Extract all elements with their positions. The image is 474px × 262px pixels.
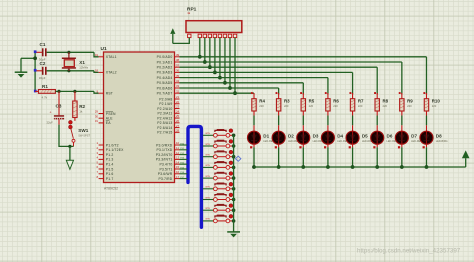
pin P2.4/A12 (25) right: [175, 117, 180, 119]
pin P1.5 (6) left: [99, 168, 104, 170]
svg-text:12MHz: 12MHz: [79, 66, 88, 70]
svg-text:AT89C52: AT89C52: [104, 187, 118, 191]
RP1 pin 1: [188, 34, 191, 37]
svg-text:EA: EA: [106, 121, 111, 125]
svg-text:220: 220: [358, 104, 363, 108]
pin XTAL2 (18) left: [99, 71, 104, 73]
wire D4 cathode: [327, 147, 329, 167]
svg-text:P0.0/AD0: P0.0/AD0: [157, 55, 173, 59]
pin P2.7/A15 (28) right: [175, 131, 180, 133]
resistor R10: [423, 92, 425, 94]
RP1 pin 4: [208, 34, 211, 37]
resistor R6: [325, 92, 327, 94]
svg-text:10: 10: [176, 141, 180, 145]
wire drop to R9: [401, 62, 403, 94]
svg-text:R10: R10: [432, 99, 441, 104]
svg-text:BTN: BTN: [206, 155, 211, 157]
svg-text:P2.5/A13: P2.5/A13: [157, 121, 172, 125]
svg-text:22uF: 22uF: [47, 120, 54, 124]
wire R5 to D3: [302, 116, 304, 126]
wire P0.1 row: [180, 61, 402, 63]
svg-text:BTN: BTN: [206, 187, 211, 189]
wire ground drop: [20, 58, 22, 72]
svg-text:220: 220: [309, 104, 314, 108]
wire P3.4 to bus: [180, 163, 188, 165]
junction gnd rail: [33, 56, 37, 60]
svg-text:22: 22: [176, 100, 180, 104]
wire R10 to D8: [425, 116, 427, 126]
svg-text:P0.2/AD2: P0.2/AD2: [157, 66, 173, 70]
wire R7 to D5: [352, 116, 354, 126]
push button B5: [203, 177, 214, 179]
svg-text:D4: D4: [337, 134, 343, 139]
wire RP1 pin 2 to P0.0: [199, 38, 201, 57]
svg-text:15: 15: [176, 165, 180, 169]
svg-text:220: 220: [407, 104, 412, 108]
svg-text:BTN: BTN: [206, 133, 211, 135]
svg-text:X1: X1: [79, 60, 85, 65]
svg-text:D7: D7: [411, 134, 417, 139]
wire drop to R3: [278, 88, 280, 94]
junction rail D6: [375, 165, 379, 169]
svg-text:36: 36: [176, 69, 180, 73]
pin P1.2 (3) left: [99, 154, 104, 156]
svg-text:P1.1/T2EX: P1.1/T2EX: [106, 148, 124, 152]
wire P3.3 to bus: [180, 158, 188, 160]
svg-text:XTAL2: XTAL2: [106, 71, 117, 75]
svg-text:21: 21: [176, 95, 180, 99]
wire P3.6 to bus: [180, 173, 188, 175]
wire P3.1 to bus: [180, 149, 188, 151]
wire RP1 common: [173, 38, 190, 44]
svg-text:R4: R4: [259, 99, 265, 104]
svg-text:D2: D2: [288, 134, 294, 139]
svg-text:37: 37: [176, 63, 180, 67]
svg-text:P1.0/T2: P1.0/T2: [106, 143, 119, 147]
wire P0.5 row: [180, 82, 304, 84]
junction rail D1: [252, 165, 256, 169]
wire R8 to D6: [376, 116, 378, 126]
svg-text:PSEN: PSEN: [106, 112, 116, 116]
node C1 junction: [34, 50, 37, 53]
svg-text:D8: D8: [436, 134, 442, 139]
svg-text:12: 12: [176, 151, 180, 155]
svg-text:C2: C2: [40, 61, 46, 66]
pin P0.1/AD1 (38) right: [175, 61, 180, 63]
svg-text:P3.0/RXD: P3.0/RXD: [156, 143, 173, 147]
wire drop to R8: [376, 67, 378, 94]
svg-text:P0.1/AD1: P0.1/AD1: [157, 60, 173, 64]
wire D2 cathode: [278, 147, 280, 167]
svg-text:BTN: BTN: [206, 208, 211, 210]
svg-text:D6: D6: [387, 134, 393, 139]
wire C3/SW1 gnd: [59, 125, 74, 147]
pin P1.7 (8) left: [99, 178, 104, 180]
svg-text:P0.3/AD3: P0.3/AD3: [157, 71, 173, 75]
svg-text:P2.6/A14: P2.6/A14: [157, 126, 172, 130]
wire RP1 pin 5 to P0.3: [214, 38, 216, 73]
pin P1.0/T2 (1) left: [99, 144, 104, 146]
wire D8 cathode: [425, 147, 427, 167]
resistor R8: [374, 92, 376, 94]
wire drop to R7: [352, 72, 354, 94]
svg-text:R7: R7: [358, 99, 364, 104]
svg-text:BTN: BTN: [206, 176, 211, 178]
pin P0.4/AD4 (35) right: [175, 77, 180, 79]
svg-text:P3.6/WR: P3.6/WR: [158, 172, 173, 176]
switch lever: [71, 129, 74, 139]
resistor R9: [399, 92, 401, 94]
wire RST pin: [94, 91, 99, 93]
svg-text:P3.4/T0: P3.4/T0: [159, 163, 172, 167]
svg-text:29: 29: [95, 110, 99, 114]
wire D6 cathode: [376, 147, 378, 167]
capacitor C2: [35, 70, 42, 72]
svg-text:ALE: ALE: [106, 117, 113, 121]
svg-text:R3: R3: [284, 99, 290, 104]
svg-text:BTN: BTN: [206, 144, 211, 146]
svg-text:28: 28: [176, 129, 180, 133]
wire P0.2 row: [180, 66, 378, 68]
RP1 pin 7: [223, 34, 226, 37]
ground (top-left): [15, 71, 28, 73]
svg-text:27: 27: [176, 124, 180, 128]
pin P3.0/RXD (10) right: [175, 144, 180, 146]
RP1 pin 2: [198, 34, 201, 37]
LED D7: [401, 125, 403, 131]
svg-text:P3.7/RD: P3.7/RD: [159, 177, 173, 181]
svg-text:P3.1/TXD: P3.1/TXD: [156, 148, 172, 152]
junction rail D8: [425, 165, 429, 169]
pin P2.5/A13 (26) right: [175, 122, 180, 124]
svg-text:23: 23: [176, 105, 180, 109]
ground (reset): [66, 160, 73, 169]
svg-text:P3.3/INT1: P3.3/INT1: [156, 158, 173, 162]
LED D1: [253, 125, 255, 131]
wire P0.0 row: [180, 56, 427, 58]
pin PSEN (29) left: [99, 113, 104, 115]
svg-text:XTAL1: XTAL1: [106, 55, 117, 59]
RP1 pin 5: [213, 34, 216, 37]
wire drop to R10: [425, 57, 427, 95]
svg-text:P1.3: P1.3: [106, 158, 114, 162]
svg-text:13: 13: [176, 156, 180, 160]
power terminal (rail): [465, 158, 467, 167]
wire RP1 pin 8 to P0.6: [229, 38, 231, 88]
svg-text:220: 220: [333, 104, 338, 108]
svg-text:24: 24: [176, 109, 180, 113]
pin P3.3/INT1 (13) right: [175, 158, 180, 160]
svg-text:220: 220: [259, 104, 264, 108]
svg-text:+: +: [50, 111, 52, 115]
svg-text:P0.6/AD6: P0.6/AD6: [157, 86, 173, 90]
LED D3: [302, 125, 304, 131]
pin P0.0/AD0 (39) right: [175, 56, 180, 58]
svg-text:P2.3/A11: P2.3/A11: [157, 112, 172, 116]
wire P3.0 to bus: [180, 144, 188, 146]
pin P0.2/AD2 (37) right: [175, 66, 180, 68]
svg-text:17: 17: [176, 175, 180, 179]
svg-text:16: 16: [176, 170, 180, 174]
push button B1: [203, 134, 214, 136]
svg-text:R9: R9: [407, 99, 413, 104]
svg-text:D3: D3: [313, 134, 319, 139]
wire P3.2 to bus: [180, 154, 188, 156]
svg-text:P3.2/INT0: P3.2/INT0: [156, 153, 173, 157]
pin P3.5/T1 (15) right: [175, 168, 180, 170]
LED D5: [352, 125, 354, 131]
svg-text:R8: R8: [383, 99, 389, 104]
wire P0.7 row: [180, 92, 255, 94]
svg-text:P2.1/A9: P2.1/A9: [159, 102, 172, 106]
pin P1.1/T2EX (2) left: [99, 149, 104, 151]
pin P1.3 (4) left: [99, 158, 104, 160]
LED D2: [278, 125, 280, 131]
svg-text:D5: D5: [362, 134, 368, 139]
svg-text:30pF: 30pF: [39, 76, 46, 80]
wire button common: [233, 135, 235, 232]
svg-text:https:∕∕blog.csdn.net∕weixin_4: https:∕∕blog.csdn.net∕weixin_42357397: [357, 248, 461, 255]
wire D1 cathode: [253, 147, 255, 167]
pin RST (9) left: [99, 92, 104, 94]
svg-text:RST: RST: [106, 92, 113, 96]
push button B3: [203, 156, 214, 158]
wire R4 to D1: [253, 116, 255, 126]
svg-text:30: 30: [95, 114, 99, 118]
pin ALE (30) left: [99, 117, 104, 119]
svg-text:U1: U1: [101, 46, 107, 52]
wire XTAL2: [94, 71, 99, 73]
push button B8: [203, 209, 214, 211]
wire P0.4 row: [180, 77, 328, 79]
push button B7: [203, 199, 214, 201]
crystal X1: [67, 51, 70, 54]
junction gnd stub: [68, 145, 71, 148]
junction RST-R2: [73, 90, 76, 93]
svg-text:SW-SPST: SW-SPST: [78, 133, 90, 137]
LED D4: [327, 125, 329, 131]
wire RP1 pin 7 to P0.5: [224, 38, 226, 83]
RP1 pin 9: [233, 34, 236, 37]
svg-text:4.7k: 4.7k: [42, 96, 48, 100]
pin P3.1/TXD (11) right: [175, 149, 180, 151]
svg-text:R1: R1: [42, 84, 48, 89]
svg-text:P2.2/A10: P2.2/A10: [157, 107, 172, 111]
op-amp U1 body (AT89C52): [104, 52, 175, 183]
wire drop to R5: [302, 83, 304, 95]
svg-text:39: 39: [176, 53, 180, 57]
svg-text:P1.2: P1.2: [106, 153, 114, 157]
wire XTAL1: [94, 52, 99, 57]
svg-text:C1: C1: [40, 42, 46, 47]
node C2 junction: [34, 69, 37, 72]
LED D6: [376, 125, 378, 131]
svg-text:P1.7: P1.7: [106, 177, 114, 181]
pin XTAL1 (19) left: [99, 56, 104, 58]
pin P2.3/A11 (24) right: [175, 112, 180, 114]
pin P0.5/AD5 (34) right: [175, 82, 180, 84]
junction RST-C3: [57, 90, 60, 93]
junction rail D7: [400, 165, 404, 169]
svg-text:P2.0/A8: P2.0/A8: [159, 97, 172, 101]
svg-text:R6: R6: [333, 99, 339, 104]
RP1 pin 6: [218, 34, 221, 37]
resistor R4: [251, 92, 253, 94]
svg-text:P1.6: P1.6: [106, 172, 114, 176]
switch SW1: [69, 120, 73, 124]
svg-text:D1: D1: [263, 134, 269, 139]
wire drop to R6: [327, 78, 329, 95]
wire P3.5 to bus: [180, 168, 188, 170]
svg-text:R2: R2: [79, 104, 85, 109]
svg-text:25: 25: [176, 114, 180, 118]
wire RP1 pin 4 to P0.2: [209, 38, 211, 68]
wire RP1 pin 9 to P0.7: [234, 38, 236, 94]
svg-text:P1.5: P1.5: [106, 167, 114, 171]
push button B9: [203, 220, 214, 222]
wire D3 cathode: [302, 147, 304, 167]
svg-text:34: 34: [176, 79, 180, 83]
wire RP1 pin 3 to P0.1: [204, 38, 206, 62]
resistor R7: [349, 92, 351, 94]
svg-text:BTN: BTN: [206, 197, 211, 199]
pin P1.6 (7) left: [99, 173, 104, 175]
wire D7 cathode: [401, 147, 403, 167]
svg-text:BTN: BTN: [206, 219, 211, 221]
wire to ground arrow: [69, 146, 71, 163]
pin P3.7/RD (17) right: [175, 178, 180, 180]
pin P2.1/A9 (22) right: [175, 103, 180, 105]
svg-text:P2.4/A12: P2.4/A12: [157, 116, 172, 120]
svg-text:SW1: SW1: [78, 128, 88, 133]
svg-text:19: 19: [95, 53, 99, 57]
pin P2.6/A14 (27) right: [175, 127, 180, 129]
svg-text:C3: C3: [56, 104, 62, 109]
wire cathode rail: [254, 166, 466, 168]
RP1 pin 8: [228, 34, 231, 37]
svg-text:14: 14: [176, 160, 180, 164]
resistor pack RP1: [186, 21, 242, 33]
LED D8: [425, 125, 427, 131]
svg-text:11: 11: [176, 146, 179, 150]
svg-text:1k: 1k: [79, 109, 83, 113]
junction rail D3: [301, 165, 305, 169]
wire D5 cathode: [352, 147, 354, 167]
capacitor C1: [35, 51, 42, 53]
wire RP1 pin 6 to P0.4: [219, 38, 221, 78]
wire RST net: [55, 90, 94, 92]
pin P2.0/A8 (21) right: [175, 98, 180, 100]
push button B6: [203, 188, 214, 190]
junction rail D2: [277, 165, 281, 169]
wire to ground: [21, 57, 35, 59]
wire R3 to D2: [278, 116, 280, 126]
resistor R1: [34, 90, 37, 93]
svg-text:BTN: BTN: [206, 165, 211, 167]
pin P3.6/WR (16) right: [175, 173, 180, 175]
cursor marker: [236, 156, 241, 161]
svg-text:P0.5/AD5: P0.5/AD5: [157, 81, 173, 85]
svg-text:P1.4: P1.4: [106, 163, 114, 167]
svg-text:18: 18: [95, 69, 99, 73]
push button B2: [203, 145, 214, 147]
svg-text:P0.7/AD7: P0.7/AD7: [157, 92, 173, 96]
svg-text:R5: R5: [309, 99, 315, 104]
wire R9 to D7: [401, 116, 403, 126]
RP1 pin 3: [203, 34, 206, 37]
pin P0.7/AD7 (32) right: [175, 92, 180, 94]
pin P1.4 (5) left: [99, 163, 104, 165]
svg-text:P2.7/A15: P2.7/A15: [157, 131, 172, 135]
bus P3 (blue): [188, 126, 201, 227]
svg-text:P0.4/AD4: P0.4/AD4: [157, 76, 173, 80]
svg-text:P3.5/T1: P3.5/T1: [159, 167, 172, 171]
svg-text:220: 220: [383, 104, 388, 108]
svg-text:26: 26: [176, 119, 180, 123]
svg-text:220: 220: [284, 104, 289, 108]
svg-text:33: 33: [176, 84, 180, 88]
pin P0.3/AD3 (36) right: [175, 71, 180, 73]
svg-text:38: 38: [176, 58, 180, 62]
pin P3.2/INT0 (12) right: [175, 154, 180, 156]
wire P0.6 row: [180, 87, 279, 89]
svg-text:LED-BIRG: LED-BIRG: [436, 140, 448, 143]
pin P0.6/AD6 (33) right: [175, 87, 180, 89]
pin EA (31) left: [99, 122, 104, 124]
wire P0.3 row: [180, 71, 353, 73]
pin P3.4/T0 (14) right: [175, 163, 180, 165]
wire R6 to D4: [327, 116, 329, 126]
resistor R3: [276, 92, 278, 94]
svg-text:31: 31: [95, 119, 99, 123]
wire gnd rail left: [34, 52, 36, 92]
power terminal (RP1 common): [170, 28, 175, 34]
pin P2.2/A10 (23) right: [175, 108, 180, 110]
wire P3.7 to bus: [180, 178, 188, 180]
ground (buttons): [227, 231, 240, 233]
junction rail D5: [351, 165, 355, 169]
junction rail D4: [326, 165, 330, 169]
svg-text:32: 32: [176, 89, 180, 93]
svg-text:35: 35: [176, 74, 180, 78]
resistor R5: [300, 92, 302, 94]
svg-text:220: 220: [432, 104, 437, 108]
push button B4: [203, 166, 214, 168]
